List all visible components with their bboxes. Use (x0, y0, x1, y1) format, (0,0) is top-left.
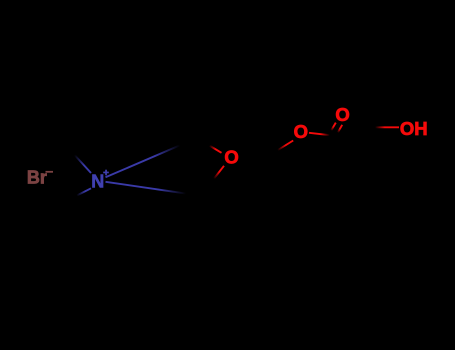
bond N-C1 upper ring bond (106, 145, 181, 177)
svg-text:O: O (335, 104, 349, 125)
svg-text:O: O (294, 121, 308, 142)
plus charge sign (103, 170, 109, 176)
bond N-C5 lower ring bond (106, 182, 187, 194)
svg-text:Br: Br (27, 167, 47, 187)
svg-text:OH: OH (400, 118, 428, 139)
ester bond O-C(=O) (309, 133, 336, 136)
hydroxyl bond C-OH (373, 126, 399, 128)
svg-text:N: N (91, 172, 104, 192)
epoxide bond O-C7 (206, 144, 222, 153)
epoxide bond O-C6 (213, 166, 225, 181)
ester bond O-C3 (276, 141, 294, 152)
svg-text:O: O (224, 146, 238, 167)
bond N-CH3 upper methyl (71, 151, 91, 173)
bond N-CH3 lower methyl (70, 188, 91, 199)
bromide ion minus charge bar (46, 171, 54, 173)
carbonyl double bond C=O line 2 (337, 125, 342, 135)
carbonyl double bond C=O line 1 (330, 123, 336, 133)
